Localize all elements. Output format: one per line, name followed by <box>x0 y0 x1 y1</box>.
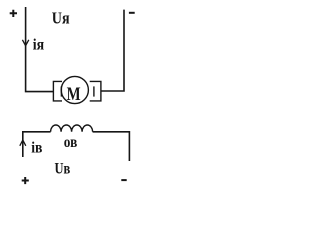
svg-text:Uв: Uв <box>55 161 71 178</box>
wire: field top horizontal right + right vertical <box>93 132 130 161</box>
terminal - (armature supply, top-right) <box>129 12 135 14</box>
inductor L1 field winding ов <box>51 125 93 132</box>
current arrow iв (upward) <box>20 140 26 146</box>
wire: armature right vertical + bottom horizontal to right brush <box>101 10 124 91</box>
wire: field left vertical + top horizontal to inductor <box>23 132 51 157</box>
svg-text:Uя: Uя <box>52 8 70 27</box>
motor M1 armature circle <box>61 76 88 103</box>
svg-text:M: M <box>67 84 81 105</box>
brush bar right <box>93 86 95 96</box>
terminal - (field supply, bottom-right) <box>121 179 126 181</box>
wire: armature left vertical + bottom horizontal to left brush <box>26 7 54 92</box>
brush holder right <box>90 81 101 101</box>
current arrow iя (downward) <box>22 40 28 46</box>
terminal + (field supply, bottom-left) <box>22 177 29 184</box>
brush holder left <box>53 81 62 101</box>
svg-text:ов: ов <box>64 134 78 151</box>
terminal + (armature supply, top-left) <box>10 10 17 17</box>
svg-text:iя: iя <box>33 37 44 54</box>
brush bar left <box>60 86 62 96</box>
svg-text:iв: iв <box>31 139 42 156</box>
